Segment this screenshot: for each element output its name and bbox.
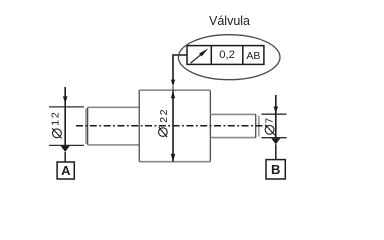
- circular runout symbol: [191, 53, 203, 63]
- datum B box: [266, 160, 285, 179]
- svg-text:0,2: 0,2: [219, 49, 235, 61]
- dimension O12 line: [64, 87, 66, 145]
- centerline: [76, 125, 268, 127]
- feature control frame: [187, 46, 264, 65]
- svg-text:2: 2: [158, 117, 170, 123]
- right cylinder O7 outline: [210, 114, 258, 137]
- datum A leader: [64, 152, 66, 162]
- svg-text:1: 1: [49, 120, 61, 126]
- svg-text:2: 2: [49, 112, 61, 118]
- label O22 diameter symbol: [159, 127, 168, 137]
- datum B leader: [275, 144, 277, 159]
- dimension O22 arrowhead down: [171, 154, 176, 162]
- svg-text:A: A: [61, 163, 71, 178]
- datum B triangle: [271, 138, 280, 144]
- leader arrowhead: [171, 80, 175, 87]
- middle cylinder O22 outline: [139, 90, 210, 162]
- label O12 diameter symbol: [52, 128, 62, 138]
- svg-text:AB: AB: [246, 50, 260, 62]
- svg-text:B: B: [271, 162, 280, 177]
- label O7 diameter symbol: [265, 125, 275, 135]
- balloon ellipse: [178, 35, 280, 80]
- dimension O22 arrowhead up: [171, 91, 175, 98]
- dimension O12 arrowhead: [63, 96, 68, 103]
- dimension O22 line: [172, 91, 174, 162]
- dimension O7 arrowhead: [274, 107, 279, 114]
- svg-text:7: 7: [264, 118, 276, 124]
- dimension O7 extension lines: [262, 114, 287, 138]
- dimension O12 extension lines: [49, 107, 84, 145]
- leader from feature control frame: [173, 55, 187, 81]
- dimension O7 line: [275, 95, 277, 138]
- svg-text:Válvula: Válvula: [209, 14, 250, 28]
- datum A triangle: [61, 146, 70, 152]
- left cylinder O12 outline: [86, 107, 139, 145]
- svg-text:2: 2: [158, 109, 170, 115]
- datum A box: [57, 162, 74, 179]
